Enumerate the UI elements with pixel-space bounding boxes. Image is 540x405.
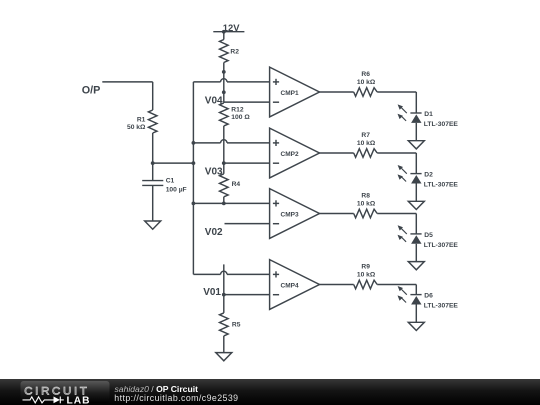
svg-text:LAB: LAB: [67, 395, 91, 405]
svg-text:100 µF: 100 µF: [166, 186, 187, 193]
wire CMP3 output to R8: [320, 213, 354, 215]
svg-text:R6: R6: [361, 71, 370, 78]
resistor R7 10 kOhm: [354, 149, 378, 158]
ground below D1: [408, 141, 424, 149]
ground below D2: [408, 201, 424, 209]
svg-text:10 kΩ: 10 kΩ: [357, 201, 376, 208]
wire junction to bus: [153, 161, 196, 165]
svg-text:LTL-307EE: LTL-307EE: [424, 121, 459, 128]
LED D6 LTL-307EE: [398, 286, 422, 305]
resistor R2: [220, 40, 229, 63]
wire R2 to V04 node: [222, 63, 226, 103]
stub wire to CMP3 - input: [225, 223, 270, 225]
op-amp CMP4: [270, 260, 320, 310]
wire V03 to CMP2 - input: [224, 162, 270, 164]
wire R7 to D2: [377, 153, 416, 174]
node O/P: [82, 85, 101, 97]
label R1 50 kOhm: [127, 117, 146, 132]
op-amp CMP2: [270, 128, 320, 178]
wire D5 to ground: [415, 244, 417, 262]
label D1 LTL-307EE: [424, 111, 459, 128]
wire R6 to D1: [377, 92, 416, 113]
resistor R9 10 kOhm: [354, 280, 378, 289]
wire V01 to CMP4 - input: [224, 294, 270, 296]
svg-text:D5: D5: [424, 232, 433, 239]
label R8 10 kOhm: [357, 193, 376, 208]
svg-text:R4: R4: [232, 181, 241, 188]
CircuitLab logo: [21, 381, 110, 405]
wire R1 to C1 junction: [151, 133, 155, 165]
ground below D5: [408, 262, 424, 270]
wire D2 to ground: [415, 184, 417, 202]
svg-text:R1: R1: [137, 117, 146, 124]
wire CMP2 output to R7: [320, 152, 354, 154]
ground below D6: [408, 322, 424, 330]
label C1 100 uF: [166, 178, 187, 194]
wire bus to CMP3 + input through R4 junction: [192, 202, 270, 206]
ground below C1: [145, 221, 161, 229]
node V02: [205, 227, 223, 238]
svg-text:O/P: O/P: [82, 85, 101, 97]
svg-text:R7: R7: [361, 132, 370, 139]
svg-text:LTL-307EE: LTL-307EE: [424, 182, 459, 189]
node V01: [203, 287, 221, 298]
resistor R12 100 Ohm: [220, 102, 229, 126]
wire D6 to ground: [415, 305, 417, 323]
svg-text:10 kΩ: 10 kΩ: [357, 272, 376, 279]
svg-text:100 Ω: 100 Ω: [231, 114, 250, 121]
label CMP2: [281, 151, 299, 158]
svg-text:V02: V02: [205, 227, 223, 238]
svg-text:D6: D6: [424, 293, 433, 300]
op-amp CMP3: [270, 189, 320, 239]
wire CMP1 output to R6: [320, 91, 354, 93]
svg-text:LTL-307EE: LTL-307EE: [424, 242, 459, 249]
svg-text:10 kΩ: 10 kΩ: [357, 79, 376, 86]
svg-text:50 kΩ: 50 kΩ: [127, 124, 146, 131]
label R12 100 Ohm: [231, 106, 250, 121]
svg-text:D1: D1: [424, 111, 433, 118]
wire R9 to D6: [377, 285, 416, 295]
label R5: [232, 321, 241, 328]
power supply 12V: [213, 30, 244, 34]
label CMP3: [281, 212, 299, 219]
svg-text:C1: C1: [166, 178, 175, 185]
op-amp CMP1: [270, 67, 320, 117]
ground below R5: [216, 353, 232, 361]
label D5 LTL-307EE: [424, 232, 459, 249]
svg-text:CMP2: CMP2: [281, 151, 299, 158]
node V04: [205, 96, 223, 107]
wire D1 to ground: [415, 123, 417, 141]
wire CMP4 output to R9: [320, 284, 354, 286]
wire R12 to V03 node: [222, 126, 226, 165]
resistor R5: [220, 295, 229, 336]
label R9 10 kOhm: [357, 264, 376, 279]
svg-text:CMP1: CMP1: [281, 90, 299, 97]
label R6 10 kOhm: [357, 71, 376, 86]
svg-text:LTL-307EE: LTL-307EE: [424, 303, 459, 310]
resistor R4: [220, 163, 229, 197]
svg-text:CMP3: CMP3: [281, 212, 299, 219]
svg-text:R12: R12: [231, 106, 244, 113]
wire R8 to D5: [377, 214, 416, 234]
resistor R6 10 kOhm: [354, 88, 378, 97]
wire R4 to V02 junction: [223, 197, 225, 204]
node V03: [205, 167, 223, 178]
LED D1 LTL-307EE: [398, 104, 422, 123]
wire R5 to ground: [223, 336, 225, 353]
floating stub above V01: [222, 264, 226, 296]
label CMP4: [281, 283, 299, 290]
capacitor C1 100 uF: [142, 163, 163, 221]
svg-text:http://circuitlab.com/c9e2539: http://circuitlab.com/c9e2539: [114, 393, 238, 403]
svg-text:R9: R9: [361, 264, 370, 271]
svg-text:R8: R8: [361, 193, 370, 200]
label R2: [230, 49, 239, 56]
svg-text:CMP4: CMP4: [281, 283, 299, 290]
wire 12V to R2: [223, 32, 225, 40]
wire bus to CMP2 + input (hop over chain): [192, 140, 270, 145]
wire bus to CMP1 + input (hop over chain): [193, 79, 269, 82]
svg-text:V03: V03: [205, 167, 223, 178]
svg-text:R5: R5: [232, 321, 241, 328]
label CMP1: [281, 90, 299, 97]
wire bus to CMP4 + input (hop over stub): [193, 271, 269, 274]
resistor R1 50 kOhm: [148, 110, 157, 133]
wire V04 to CMP1 - input: [224, 101, 270, 103]
svg-text:D2: D2: [424, 172, 433, 179]
footer title text: [114, 384, 238, 403]
svg-text:10 kΩ: 10 kΩ: [357, 140, 376, 147]
bus wire (O/P to + inputs): [192, 82, 194, 275]
resistor R8 10 kOhm: [354, 209, 378, 218]
LED D2 LTL-307EE: [398, 165, 422, 184]
svg-text:12V: 12V: [223, 22, 240, 33]
wire O/P to R1: [102, 82, 152, 110]
svg-text:R2: R2: [230, 49, 239, 56]
label R7 10 kOhm: [357, 132, 376, 147]
svg-text:V01: V01: [203, 287, 221, 298]
label D6 LTL-307EE: [424, 293, 459, 310]
svg-text:V04: V04: [205, 96, 223, 107]
LED D5 LTL-307EE: [398, 225, 422, 244]
label D2 LTL-307EE: [424, 172, 459, 189]
label 12V: [223, 22, 240, 33]
label R4: [232, 181, 241, 188]
